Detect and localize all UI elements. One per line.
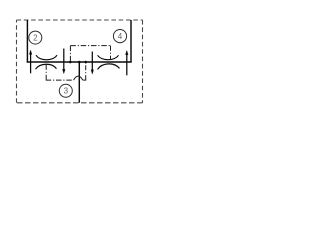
balloon label 2	[29, 31, 42, 44]
arrow up (left)	[29, 50, 32, 73]
arrow down (left-center)	[62, 49, 65, 74]
pilot line right vertical (dash-dot)	[85, 62, 87, 80]
svg-text:2: 2	[33, 34, 38, 43]
arrow down (right-center)	[91, 52, 94, 75]
svg-text:3: 3	[64, 87, 69, 96]
pilot box top edge (dash-dot)	[70, 45, 110, 47]
balloon label 3	[59, 84, 72, 97]
enclosure boundary top edge (dashed)	[17, 19, 143, 21]
pilot box right edge (dash-dot)	[110, 46, 112, 59]
venturi upper arc (left)	[36, 55, 57, 60]
junction node C	[84, 61, 87, 64]
arrow up (right)	[125, 50, 128, 75]
wire: main horizontal line	[27, 61, 132, 63]
enclosure boundary left edge (dashed)	[16, 20, 18, 103]
pilot box left edge (dash-dot)	[69, 46, 71, 62]
enclosure boundary bottom edge (dashed)	[17, 102, 143, 104]
svg-text:4: 4	[118, 32, 123, 41]
venturi upper arc (right)	[98, 55, 119, 59]
junction node B	[78, 61, 81, 64]
pilot line bottom horizontal (dash-dot)	[46, 79, 74, 81]
wire: left vertical from top boundary	[26, 20, 28, 63]
wire hop over center vertical	[74, 76, 83, 80]
wire: right vertical from top boundary	[130, 20, 132, 63]
enclosure boundary right edge (dashed)	[142, 20, 144, 103]
wire: center vertical down to bottom boundary	[78, 62, 80, 103]
balloon label 4	[113, 29, 126, 42]
venturi lower arc (left)	[36, 64, 57, 69]
pilot line right stub (dash-dot)	[83, 79, 86, 81]
pilot line left vertical (dash-dot)	[45, 65, 47, 80]
venturi lower arc (right)	[98, 64, 120, 70]
junction node A	[69, 61, 72, 64]
